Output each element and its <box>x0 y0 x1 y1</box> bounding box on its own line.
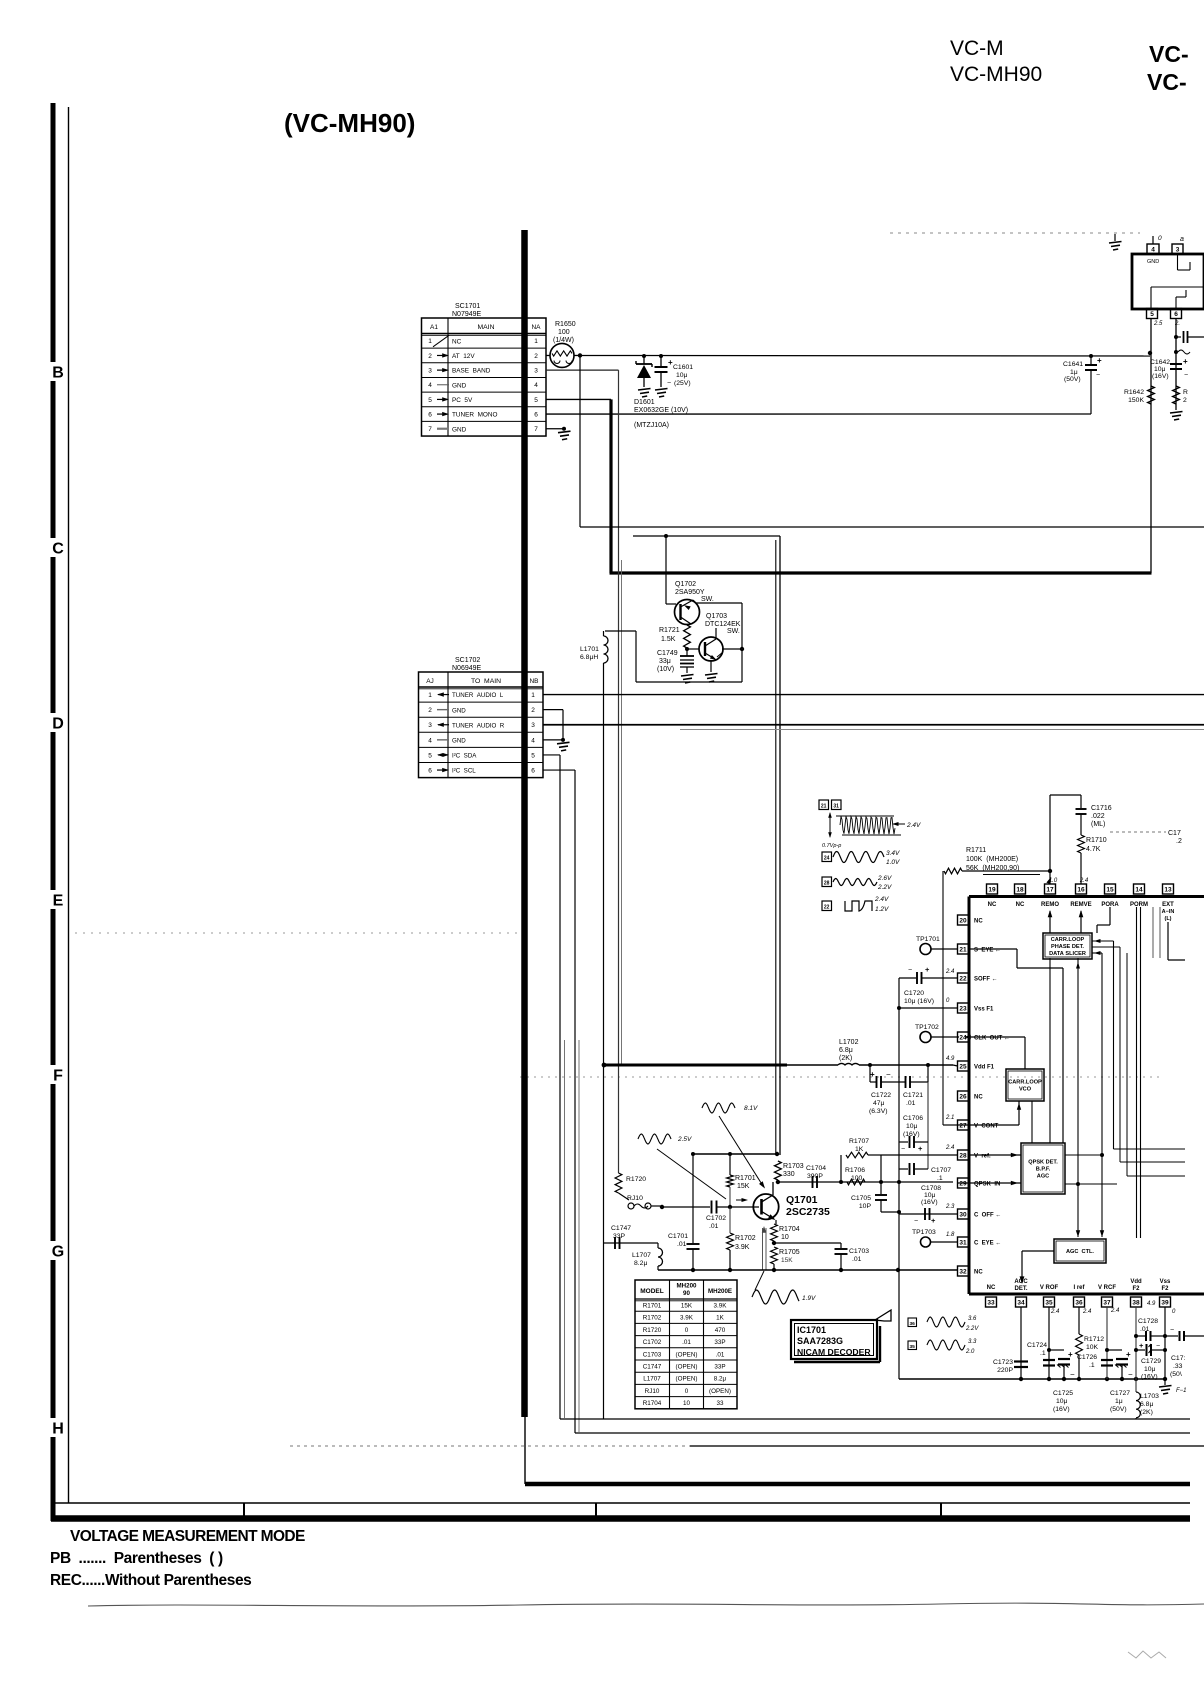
svg-text:1: 1 <box>428 338 432 345</box>
svg-text:31: 31 <box>959 1239 967 1246</box>
svg-text:−: − <box>1096 372 1100 379</box>
svg-text:C1722: C1722 <box>871 1092 891 1099</box>
svg-text:−: − <box>908 967 912 974</box>
svg-text:(16V): (16V) <box>903 1131 920 1138</box>
svg-text:NC: NC <box>452 338 462 345</box>
svg-text:DET.: DET. <box>1014 1286 1027 1292</box>
svg-text:C1723: C1723 <box>993 1359 1013 1366</box>
svg-text:L1707: L1707 <box>643 1376 661 1383</box>
svg-text:R1707: R1707 <box>849 1138 869 1145</box>
svg-text:33: 33 <box>716 1400 724 1407</box>
svg-text:1.2V: 1.2V <box>875 906 889 913</box>
svg-text:PHASE DET.: PHASE DET. <box>1051 944 1084 950</box>
svg-text:10μ: 10μ <box>676 372 688 379</box>
svg-text:(2K): (2K) <box>839 1055 852 1062</box>
svg-text:.01: .01 <box>709 1223 719 1230</box>
svg-text:2.2V: 2.2V <box>877 884 892 891</box>
svg-text:33μ: 33μ <box>659 658 671 665</box>
svg-text:MODEL: MODEL <box>640 1288 664 1295</box>
svg-text:390P: 390P <box>807 1173 823 1180</box>
svg-text:3: 3 <box>1176 246 1180 253</box>
svg-text:GND: GND <box>452 707 466 714</box>
svg-text:6: 6 <box>534 411 538 418</box>
svg-text:38: 38 <box>1132 1299 1140 1306</box>
svg-text:7: 7 <box>428 426 432 433</box>
svg-text:MH200E: MH200E <box>708 1288 732 1295</box>
svg-text:L1707: L1707 <box>632 1252 651 1259</box>
svg-text:MH200: MH200 <box>677 1283 698 1290</box>
svg-text:+: + <box>1139 1341 1144 1350</box>
svg-text:56K (MH200,90): 56K (MH200,90) <box>966 865 1019 872</box>
svg-text:47μ: 47μ <box>873 1100 885 1107</box>
svg-text:100: 100 <box>851 1175 863 1182</box>
svg-text:C1721: C1721 <box>903 1092 923 1099</box>
svg-text:C1724: C1724 <box>1027 1342 1047 1349</box>
svg-text:R: R <box>1183 389 1188 396</box>
svg-text:16: 16 <box>1077 886 1085 893</box>
svg-text:1μ: 1μ <box>1070 369 1078 376</box>
svg-text:4: 4 <box>428 382 432 389</box>
svg-text:C: C <box>52 541 64 558</box>
svg-text:Vdd F1: Vdd F1 <box>974 1065 995 1071</box>
svg-text:3.4V: 3.4V <box>886 850 900 857</box>
svg-text:.01: .01 <box>852 1256 862 1263</box>
svg-text:2.: 2. <box>1174 321 1180 327</box>
svg-text:10P: 10P <box>859 1203 872 1210</box>
svg-text:Vss: Vss <box>1160 1279 1171 1285</box>
svg-text:30: 30 <box>959 1211 967 1218</box>
svg-text:VC-M: VC-M <box>950 37 1004 60</box>
svg-text:24: 24 <box>824 856 830 862</box>
svg-text:C1641: C1641 <box>1063 361 1083 368</box>
svg-text:C1704: C1704 <box>806 1165 826 1172</box>
svg-text:1K: 1K <box>855 1146 864 1153</box>
svg-text:I ref: I ref <box>1073 1285 1085 1291</box>
svg-text:28: 28 <box>824 881 830 887</box>
svg-text:1.9V: 1.9V <box>802 1295 816 1302</box>
svg-text:SC1702: SC1702 <box>455 657 480 664</box>
svg-text:MAIN: MAIN <box>478 324 495 331</box>
svg-text:32: 32 <box>959 1268 967 1275</box>
svg-text:15K: 15K <box>781 1257 793 1264</box>
svg-text:(25V): (25V) <box>674 380 691 387</box>
svg-text:1: 1 <box>428 692 432 699</box>
svg-text:IC1701: IC1701 <box>797 1325 826 1335</box>
svg-text:NC: NC <box>987 1285 996 1291</box>
svg-text:10μ: 10μ <box>1056 1398 1068 1405</box>
svg-text:6: 6 <box>1174 311 1178 318</box>
svg-text:+: + <box>1126 1350 1131 1359</box>
svg-text:10μ: 10μ <box>906 1123 918 1130</box>
svg-text:R1721: R1721 <box>659 627 680 634</box>
svg-text:(OPEN): (OPEN) <box>675 1376 697 1383</box>
svg-text:4.9: 4.9 <box>946 1056 955 1062</box>
svg-text:C OFF ←: C OFF ← <box>974 1213 1001 1219</box>
svg-text:36: 36 <box>910 1321 916 1327</box>
svg-text:TP1701: TP1701 <box>916 936 940 943</box>
svg-text:.022: .022 <box>1091 813 1105 820</box>
svg-text:17: 17 <box>1046 886 1054 893</box>
svg-text:C1747: C1747 <box>611 1225 631 1232</box>
svg-text:(16V): (16V) <box>921 1199 938 1206</box>
svg-text:1.8: 1.8 <box>946 1232 955 1238</box>
svg-text:R1712: R1712 <box>1084 1336 1104 1343</box>
svg-text:35: 35 <box>910 1344 916 1350</box>
svg-text:36: 36 <box>1075 1299 1083 1306</box>
svg-text:R1704: R1704 <box>779 1226 800 1233</box>
svg-text:.01: .01 <box>1140 1326 1150 1333</box>
svg-text:Q1701: Q1701 <box>786 1194 818 1206</box>
svg-text:1K: 1K <box>716 1315 725 1322</box>
svg-text:2: 2 <box>1183 397 1187 404</box>
svg-text:2.5: 2.5 <box>1153 321 1163 327</box>
svg-text:SC1701: SC1701 <box>455 303 480 310</box>
svg-text:TUNER AUDIO R: TUNER AUDIO R <box>452 722 505 729</box>
svg-text:SOFF ←: SOFF ← <box>974 977 998 983</box>
svg-text:2.2V: 2.2V <box>965 1326 979 1332</box>
svg-text:VC-: VC- <box>1147 69 1187 95</box>
svg-text:6.8μH: 6.8μH <box>580 654 598 661</box>
svg-text:1: 1 <box>531 692 535 699</box>
svg-text:2SA950Y: 2SA950Y <box>675 589 705 596</box>
svg-text:NB: NB <box>529 678 538 685</box>
svg-text:3: 3 <box>534 368 538 375</box>
svg-text:2.0: 2.0 <box>965 1349 975 1355</box>
svg-text:14: 14 <box>1135 886 1143 893</box>
svg-text:B: B <box>52 365 64 382</box>
svg-text:100K (MH200E): 100K (MH200E) <box>966 856 1018 863</box>
svg-text:+: + <box>918 1144 923 1153</box>
svg-text:2.4: 2.4 <box>1082 1309 1092 1315</box>
svg-text:GND: GND <box>452 737 466 744</box>
svg-text:C1642: C1642 <box>1150 359 1170 366</box>
svg-text:8.1V: 8.1V <box>744 1105 758 1112</box>
svg-text:33P: 33P <box>714 1339 725 1346</box>
svg-text:I²C SCL: I²C SCL <box>452 768 476 775</box>
svg-text:E: E <box>53 893 64 910</box>
svg-text:R1705: R1705 <box>779 1249 800 1256</box>
svg-text:29: 29 <box>959 1180 967 1187</box>
svg-text:REMO: REMO <box>1041 902 1059 908</box>
svg-text:(50V): (50V) <box>1064 376 1081 383</box>
svg-text:31: 31 <box>833 804 839 810</box>
svg-text:26: 26 <box>959 1093 967 1100</box>
svg-text:TUNER MONO: TUNER MONO <box>452 412 497 419</box>
svg-text:4: 4 <box>531 737 535 744</box>
svg-text:2: 2 <box>428 707 432 714</box>
svg-text:B.P.F.: B.P.F. <box>1036 1167 1051 1173</box>
svg-text:−: − <box>886 1070 891 1079</box>
svg-text:AJ: AJ <box>426 678 434 685</box>
svg-text:33P: 33P <box>714 1364 725 1371</box>
svg-text:1.0V: 1.0V <box>886 859 900 866</box>
svg-text:3: 3 <box>428 722 432 729</box>
svg-text:C1705: C1705 <box>851 1195 871 1202</box>
svg-text:+: + <box>925 965 930 974</box>
svg-text:AGC: AGC <box>1037 1174 1049 1180</box>
svg-text:TO MAIN: TO MAIN <box>471 678 501 685</box>
svg-text:PC 5V: PC 5V <box>452 397 473 404</box>
svg-text:34: 34 <box>1017 1299 1025 1306</box>
svg-text:REMVE: REMVE <box>1070 902 1091 908</box>
svg-text:RJ10: RJ10 <box>645 1388 660 1395</box>
svg-text:−: − <box>1070 1370 1075 1379</box>
svg-text:33: 33 <box>987 1299 995 1306</box>
svg-text:3.9K: 3.9K <box>680 1315 694 1322</box>
svg-text:.33: .33 <box>1173 1363 1183 1370</box>
svg-text:G: G <box>52 1244 64 1261</box>
svg-text:DTC124EK: DTC124EK <box>705 621 741 628</box>
svg-text:2.1: 2.1 <box>945 1115 954 1121</box>
svg-text:.2: .2 <box>1176 838 1182 845</box>
svg-text:(OPEN): (OPEN) <box>675 1364 697 1371</box>
svg-text:L1702: L1702 <box>839 1039 859 1046</box>
svg-text:10μ: 10μ <box>1144 1366 1156 1373</box>
svg-text:C EYE ←: C EYE ← <box>974 1241 1001 1247</box>
svg-text:2.3: 2.3 <box>945 1204 955 1210</box>
svg-text:27: 27 <box>959 1122 967 1129</box>
svg-text:2: 2 <box>428 353 432 360</box>
svg-text:0.7Vp-p: 0.7Vp-p <box>822 843 841 849</box>
svg-text:NC: NC <box>974 1270 983 1276</box>
svg-text:C1703: C1703 <box>849 1248 869 1255</box>
svg-text:35: 35 <box>1045 1299 1053 1306</box>
svg-text:.01: .01 <box>716 1351 725 1358</box>
svg-text:6: 6 <box>428 411 432 418</box>
svg-text:+: + <box>1183 357 1188 366</box>
svg-text:19: 19 <box>988 886 996 893</box>
svg-text:Vdd: Vdd <box>1130 1279 1142 1285</box>
svg-text:6.8μ: 6.8μ <box>839 1047 853 1054</box>
svg-text:NC: NC <box>974 919 983 925</box>
svg-text:R1702: R1702 <box>643 1315 662 1322</box>
svg-text:39: 39 <box>1161 1299 1169 1306</box>
svg-text:20: 20 <box>959 917 967 924</box>
svg-text:3.3: 3.3 <box>968 1339 977 1345</box>
svg-text:R1701: R1701 <box>735 1175 756 1182</box>
svg-text:100: 100 <box>558 329 570 336</box>
svg-text:R1704: R1704 <box>643 1400 662 1407</box>
svg-text:(16V): (16V) <box>1152 373 1169 380</box>
svg-text:C1747: C1747 <box>643 1364 662 1371</box>
svg-text:NA: NA <box>531 324 541 331</box>
svg-text:C1706: C1706 <box>903 1115 923 1122</box>
svg-text:2.4V: 2.4V <box>874 896 889 903</box>
svg-text:4: 4 <box>534 382 538 389</box>
svg-text:QPSK DET.: QPSK DET. <box>1028 1159 1058 1165</box>
svg-text:28: 28 <box>959 1152 967 1159</box>
svg-text:(OPEN): (OPEN) <box>709 1388 731 1395</box>
svg-text:10μ (16V): 10μ (16V) <box>904 998 934 1005</box>
svg-text:GND: GND <box>452 382 467 389</box>
svg-text:NC: NC <box>974 1095 983 1101</box>
svg-text:AGC CTL.: AGC CTL. <box>1066 1249 1094 1255</box>
svg-text:F: F <box>53 1068 63 1085</box>
svg-text:L1701: L1701 <box>580 646 599 653</box>
svg-text:EXT: EXT <box>1162 902 1174 908</box>
svg-text:SW.: SW. <box>701 596 714 603</box>
svg-text:TUNER AUDIO L: TUNER AUDIO L <box>452 692 504 699</box>
svg-text:0: 0 <box>1158 235 1162 242</box>
svg-text:2.4: 2.4 <box>1079 878 1089 884</box>
svg-text:CARR.LOOP: CARR.LOOP <box>1051 937 1085 943</box>
svg-text:4.9: 4.9 <box>1147 1301 1156 1307</box>
svg-text:1: 1 <box>534 338 538 345</box>
svg-text:37: 37 <box>1103 1299 1111 1306</box>
svg-text:R1711: R1711 <box>966 847 986 854</box>
svg-text:4.7K: 4.7K <box>1086 846 1101 853</box>
svg-text:(50\: (50\ <box>1170 1371 1182 1378</box>
svg-text:21: 21 <box>821 804 827 810</box>
svg-text:EX0632GE (10V): EX0632GE (10V) <box>634 407 688 414</box>
svg-text:15K: 15K <box>681 1303 693 1310</box>
svg-text:C1702: C1702 <box>706 1215 726 1222</box>
svg-text:C1601: C1601 <box>673 364 693 371</box>
svg-text:3: 3 <box>428 368 432 375</box>
svg-text:(L): (L) <box>1164 916 1171 922</box>
svg-text:GND: GND <box>1147 259 1159 265</box>
svg-text:C17:: C17: <box>1171 1355 1185 1362</box>
svg-text:10: 10 <box>683 1400 691 1407</box>
svg-text:REC......Without Parentheses: REC......Without Parentheses <box>50 1572 251 1589</box>
svg-text:SAA7283G: SAA7283G <box>797 1336 843 1346</box>
svg-text:R1703: R1703 <box>783 1163 804 1170</box>
svg-text:F2: F2 <box>1132 1286 1140 1292</box>
svg-text:6: 6 <box>531 767 535 774</box>
svg-text:VC-MH90: VC-MH90 <box>950 63 1042 86</box>
svg-text:2.4: 2.4 <box>945 1145 955 1151</box>
svg-text:3.9K: 3.9K <box>735 1244 750 1251</box>
svg-text:C1716: C1716 <box>1091 805 1112 812</box>
svg-text:SW.: SW. <box>727 628 740 635</box>
svg-text:GND: GND <box>452 426 467 433</box>
svg-text:−: − <box>1184 372 1188 379</box>
svg-text:AT 12V: AT 12V <box>452 353 475 360</box>
svg-text:L1703: L1703 <box>1140 1393 1159 1400</box>
svg-text:C1725: C1725 <box>1053 1390 1073 1397</box>
svg-text:2.4: 2.4 <box>945 969 955 975</box>
svg-text:N07949E: N07949E <box>452 311 482 318</box>
svg-text:N06949E: N06949E <box>452 665 482 672</box>
svg-text:22: 22 <box>959 975 967 982</box>
svg-text:2.4: 2.4 <box>1050 1309 1060 1315</box>
svg-text:330: 330 <box>783 1171 795 1178</box>
svg-text:0: 0 <box>685 1327 689 1334</box>
svg-text:A1: A1 <box>430 324 438 331</box>
svg-text:.01: .01 <box>682 1339 691 1346</box>
svg-text:VCO: VCO <box>1019 1087 1032 1093</box>
svg-text:5: 5 <box>1150 311 1154 318</box>
svg-text:90: 90 <box>683 1290 690 1297</box>
svg-text:R1710: R1710 <box>1086 837 1107 844</box>
svg-text:CARR.LOOP: CARR.LOOP <box>1008 1079 1042 1085</box>
svg-text:(50V): (50V) <box>1110 1406 1127 1413</box>
svg-text:(ML): (ML) <box>1091 821 1105 828</box>
svg-text:1μ: 1μ <box>1115 1398 1123 1405</box>
svg-text:C1708: C1708 <box>921 1185 941 1192</box>
svg-text:a: a <box>1180 236 1184 243</box>
svg-text:(MTZJ10A): (MTZJ10A) <box>634 422 669 429</box>
svg-text:150K: 150K <box>1128 397 1144 404</box>
svg-text:7: 7 <box>534 426 538 433</box>
svg-text:−: − <box>1128 1370 1133 1379</box>
svg-text:3: 3 <box>531 722 535 729</box>
svg-text:(6.3V): (6.3V) <box>869 1108 888 1115</box>
svg-text:2: 2 <box>534 353 538 360</box>
svg-text:6.8μ: 6.8μ <box>1140 1401 1153 1408</box>
svg-text:PB ....... Parentheses ( ): PB ....... Parentheses ( ) <box>50 1550 223 1567</box>
svg-text:21: 21 <box>959 946 967 953</box>
svg-text:10K: 10K <box>1086 1344 1099 1351</box>
svg-text:C1749: C1749 <box>657 650 678 657</box>
svg-text:4: 4 <box>1151 246 1155 253</box>
svg-text:2: 2 <box>531 707 535 714</box>
svg-text:C1703: C1703 <box>643 1351 662 1358</box>
svg-text:+: + <box>931 1216 936 1225</box>
svg-text:R1720: R1720 <box>643 1327 662 1334</box>
svg-text:(OPEN): (OPEN) <box>675 1351 697 1358</box>
svg-text:Q1703: Q1703 <box>706 613 727 620</box>
svg-text:23: 23 <box>959 1005 967 1012</box>
svg-text:−: − <box>1156 1343 1160 1350</box>
svg-text:10: 10 <box>781 1234 789 1241</box>
svg-text:NC: NC <box>988 902 997 908</box>
svg-text:F−1: F−1 <box>1176 1388 1187 1394</box>
svg-text:H: H <box>52 1421 64 1438</box>
svg-text:C1702: C1702 <box>643 1339 662 1346</box>
svg-text:5: 5 <box>428 752 432 759</box>
svg-text:V RCF: V RCF <box>1098 1285 1116 1291</box>
svg-text:.01: .01 <box>677 1241 687 1248</box>
svg-text:PORM: PORM <box>1130 902 1148 908</box>
svg-text:−: − <box>914 1218 918 1225</box>
svg-text:2.4V: 2.4V <box>906 822 921 829</box>
svg-text:TP1702: TP1702 <box>915 1024 939 1031</box>
svg-text:(16V): (16V) <box>1053 1406 1070 1413</box>
svg-text:(VC-MH90): (VC-MH90) <box>284 108 415 138</box>
svg-text:2.6V: 2.6V <box>877 875 892 882</box>
svg-text:C1727: C1727 <box>1110 1390 1130 1397</box>
svg-text:−: − <box>901 1146 905 1153</box>
svg-text:+: + <box>1097 356 1102 365</box>
svg-text:2.4: 2.4 <box>1110 1308 1120 1314</box>
svg-text:R1706: R1706 <box>845 1167 865 1174</box>
svg-text:470: 470 <box>715 1327 726 1334</box>
svg-text:(2K): (2K) <box>1140 1409 1153 1416</box>
svg-text:.1: .1 <box>937 1175 943 1182</box>
svg-text:.1: .1 <box>1089 1362 1095 1369</box>
svg-text:NICAM DECODER: NICAM DECODER <box>797 1347 871 1357</box>
svg-text:(16V): (16V) <box>1141 1374 1158 1381</box>
svg-text:4: 4 <box>428 737 432 744</box>
svg-text:8.2μ: 8.2μ <box>634 1260 647 1267</box>
svg-text:6: 6 <box>428 767 432 774</box>
svg-text:10μ: 10μ <box>924 1192 936 1199</box>
svg-text:2.5V: 2.5V <box>677 1136 692 1143</box>
svg-text:C1728: C1728 <box>1138 1318 1158 1325</box>
svg-text:R1642: R1642 <box>1124 389 1144 396</box>
svg-text:22: 22 <box>824 905 830 911</box>
svg-text:5: 5 <box>428 397 432 404</box>
svg-text:−: − <box>1170 1327 1174 1334</box>
svg-text:1.5K: 1.5K <box>661 636 676 643</box>
svg-text:BASE BAND: BASE BAND <box>452 368 491 375</box>
svg-text:15K: 15K <box>737 1183 750 1190</box>
svg-text:25: 25 <box>959 1063 967 1070</box>
svg-text:F2: F2 <box>1161 1286 1169 1292</box>
svg-text:3.9K: 3.9K <box>714 1303 728 1310</box>
svg-text:DATA SLICER: DATA SLICER <box>1049 951 1086 957</box>
